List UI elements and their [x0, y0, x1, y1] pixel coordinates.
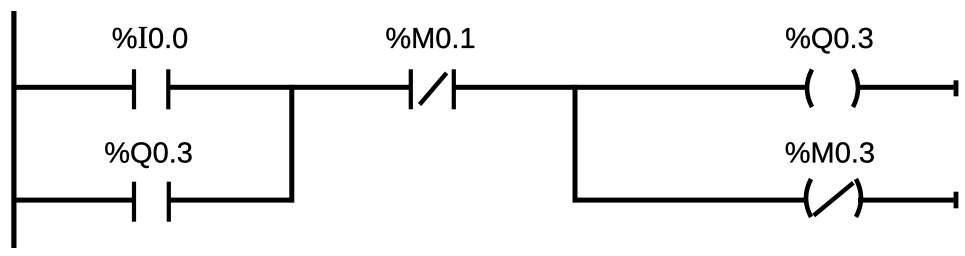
- coil %M0.3 (negated output): [806, 179, 861, 217]
- wire branch junction to coil M0.3: [573, 198, 807, 203]
- svg-text:%Q0.3: %Q0.3: [785, 23, 874, 55]
- wire rung2 contact Q0.3 to branch junction: [168, 198, 294, 203]
- coil %Q0.3 (output): [807, 70, 858, 108]
- contact %Q0.3 (normally open, parallel branch): [132, 182, 171, 222]
- wire coil M0.3 to right rail: [858, 198, 956, 203]
- wire rung2 rail to contact Q0.3: [12, 198, 135, 203]
- svg-text:%M0.1: %M0.1: [385, 23, 475, 55]
- wire parallel branch vertical junction A: [289, 85, 294, 203]
- wire rung1 contact I0.0 to contact M0.1: [168, 85, 411, 90]
- contact %I0.0 (normally open): [132, 69, 171, 109]
- svg-text:%M0.3: %M0.3: [785, 137, 875, 169]
- contact %M0.1 (normally closed): [409, 69, 456, 109]
- svg-text:%I0.0: %I0.0: [112, 20, 189, 55]
- right rail tick rung1: [954, 80, 959, 96]
- right rail tick rung2: [954, 192, 959, 209]
- wire output branch vertical junction B: [573, 85, 578, 203]
- wire rung1 coil Q0.3 to right rail: [857, 85, 956, 90]
- svg-text:%Q0.3: %Q0.3: [104, 137, 193, 169]
- left power rail: [11, 11, 16, 248]
- wire rung1 contact M0.1 to coil Q0.3: [454, 85, 808, 90]
- wire rung1 rail to contact I0.0: [12, 85, 135, 90]
